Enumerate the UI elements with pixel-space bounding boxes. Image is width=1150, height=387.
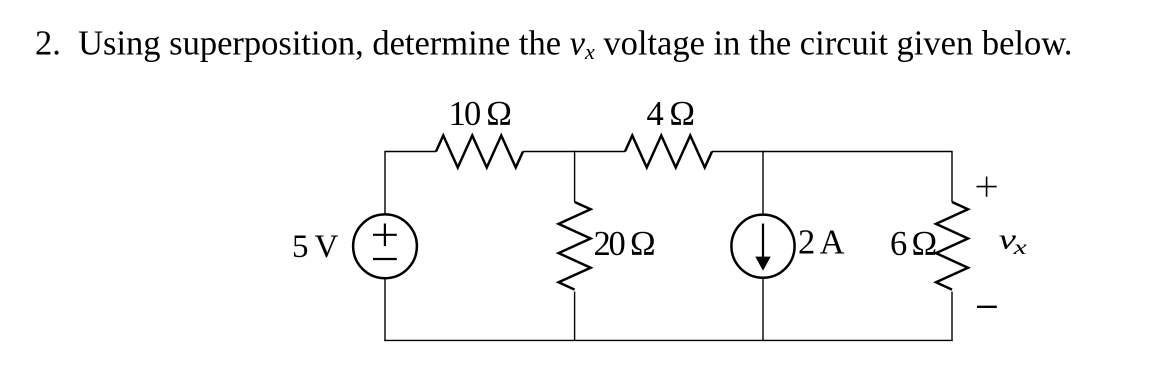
svg-text:4 Ω: 4 Ω [647,95,694,133]
wire right branch lower [951,292,953,342]
wire left branch lower [384,278,386,341]
resistor R3 20 ohm (body) [559,202,591,290]
label 20 ohm [594,225,655,263]
wire middle branch lower [574,292,576,342]
bottom wire [384,339,952,341]
resistor R2 4 ohm (body) [625,136,712,168]
wire top-left horizontal segment [385,151,436,153]
wire top-middle segment (node A) [523,151,625,153]
label 5 V [292,229,339,265]
label 4 ohm [647,95,694,133]
wire right branch upper [951,151,953,202]
label 6 ohm [890,225,935,263]
wire current-source branch upper [762,151,764,215]
problem statement text [35,25,1073,64]
label 10 ohm [449,95,511,133]
resistor R1 10 ohm (body) [436,136,523,168]
svg-text:5 V: 5 V [292,229,339,265]
current source I1 2A (circle with down arrow) [731,215,794,278]
voltage source V1 5V (circle) [353,214,417,278]
minus polarity mark for vx [977,306,997,308]
resistor R4 6 ohm (body) [936,202,968,290]
svg-text:2 A: 2 A [798,224,845,262]
wire middle branch upper [574,151,576,202]
plus polarity mark for vx [977,177,997,197]
svg-text:20 Ω: 20 Ω [594,225,655,263]
svg-text:10 Ω: 10 Ω [449,95,511,133]
node label vx [999,225,1027,259]
svg-text:6 Ω: 6 Ω [890,225,935,263]
wire top-right segment (node B) [712,151,952,153]
wire left branch upper [384,151,386,215]
svg-text:2. Using superposition, determ: 2. Using superposition, determine the vx… [35,25,1073,64]
wire current-source branch lower [762,278,764,341]
label 2 A [798,224,845,262]
svg-text:x: x [1013,237,1027,259]
